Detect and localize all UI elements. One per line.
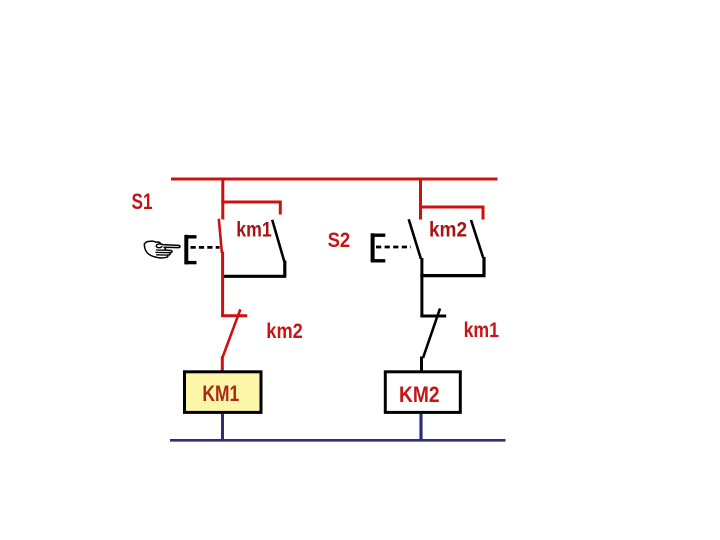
pushbutton S2 actuator dashed link: [376, 246, 411, 249]
svg-text:km2: km2: [429, 218, 467, 241]
svg-text:km2: km2: [266, 320, 303, 343]
svg-text:KM2: KM2: [399, 382, 440, 407]
contact km2 NC interlock seat bar (red): [221, 314, 247, 317]
label S2: [328, 229, 351, 252]
pushbutton S2 NO contact blade (black): [409, 219, 421, 258]
wire: coil KM2 to neutral (navy): [419, 414, 422, 442]
wire: left parallel-branch tap (staple to km1 contact): [221, 201, 280, 215]
pushbutton S1 actuator dashed link: [191, 246, 220, 249]
wire: bottom neutral bus (navy): [170, 439, 506, 442]
wire: right branch vertical drop from bus (red): [419, 179, 422, 220]
contact km1 NO auxiliary blade (black): [272, 220, 285, 276]
coil KM1: [185, 372, 262, 413]
pushbutton S2 actuator bracket: [373, 233, 386, 262]
label km2 (NC interlock, lower left): [266, 320, 303, 343]
wire: left branch mid vertical (red): [221, 252, 224, 317]
label km1 (NC interlock, lower right): [464, 319, 500, 342]
wire: left branch vertical drop from bus: [221, 179, 224, 220]
contact km2 NC interlock blade (red): [222, 309, 240, 358]
contact km2 NO auxiliary blade (black): [471, 220, 484, 275]
contact km1 NC interlock blade (black): [423, 309, 440, 359]
wire: top supply bus (red): [171, 178, 498, 181]
wire: right branch mid vertical (black): [420, 258, 423, 317]
wire: km1 branch bottom return (black): [223, 275, 286, 278]
label km1 (auxiliary contact, top left): [236, 219, 272, 242]
label km2 (auxiliary contact, top right): [429, 218, 467, 241]
svg-text:km1: km1: [236, 219, 272, 242]
label S1: [132, 189, 153, 214]
wire: coil KM1 to neutral (navy): [221, 414, 224, 441]
contact km1 NC interlock seat bar (black): [420, 315, 446, 318]
wire: right parallel-branch tap (staple to km2 contact): [419, 206, 483, 220]
pushbutton S1 actuator bracket: [186, 235, 196, 265]
coil KM2: [385, 372, 460, 413]
wire: into coil KM1 (red): [221, 357, 224, 372]
hand pointer icon: [144, 241, 180, 258]
svg-text:km1: km1: [464, 319, 500, 342]
svg-text:S1: S1: [132, 189, 153, 214]
pushbutton S1 NO contact blade (red): [219, 219, 222, 253]
svg-text:S2: S2: [328, 229, 351, 252]
wire: km2 branch bottom return (black): [420, 274, 485, 277]
svg-text:KM1: KM1: [202, 381, 239, 406]
wire: into coil KM2 (black): [420, 357, 423, 372]
